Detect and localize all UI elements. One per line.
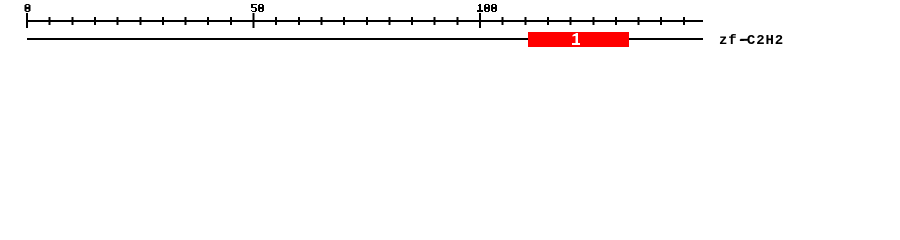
ruler axis line xyxy=(27,20,703,22)
ruler scale label 50 xyxy=(251,4,264,12)
hyphen widening of zf-C2H2 label xyxy=(741,39,748,41)
ruler major tick 0 xyxy=(26,13,28,28)
protein backbone line xyxy=(27,38,703,40)
ruler major tick 100 xyxy=(479,13,481,28)
domain box zf-C2H2 (red) xyxy=(528,32,629,47)
svg-text:zf-C2H2: zf-C2H2 xyxy=(719,33,784,49)
domain number 1 xyxy=(572,33,580,45)
ruler scale label 0 xyxy=(25,4,31,12)
ruler scale label 100 xyxy=(477,4,497,12)
background xyxy=(0,0,900,58)
ruler minor ticks xyxy=(49,17,685,25)
ruler major tick 50 xyxy=(253,13,255,28)
